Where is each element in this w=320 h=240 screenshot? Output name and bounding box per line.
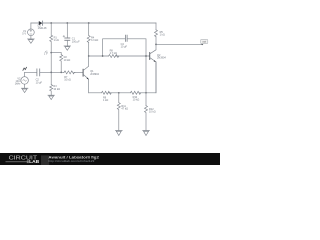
node dot Q1 collector <box>88 55 90 57</box>
transistor Q1 <box>83 56 89 93</box>
node dot emitter chain x118 <box>118 92 120 94</box>
wire divider to R2 <box>51 52 61 54</box>
watermark bar <box>0 153 220 165</box>
resistor R10 <box>130 91 140 94</box>
svg-text:100 µF: 100 µF <box>72 40 80 43</box>
ground below R11 <box>116 131 123 136</box>
svg-text:2N3904: 2N3904 <box>90 73 99 76</box>
resistor R8 <box>109 55 119 58</box>
svg-text:10 kΩ: 10 kΩ <box>133 98 140 101</box>
svg-text:10 µF: 10 µF <box>36 81 43 84</box>
resistor R9 emitter <box>102 91 112 94</box>
resistor R11 to ground <box>117 93 120 131</box>
svg-text:10 kΩ: 10 kΩ <box>53 88 60 91</box>
emitter chain wire <box>89 62 156 93</box>
svg-text:1 V: 1 V <box>44 53 48 56</box>
ground below R12 <box>143 131 150 136</box>
wire output <box>156 43 202 45</box>
node dot emitter chain x146 <box>145 92 147 94</box>
wire R7 to Q1 base <box>74 71 83 73</box>
voltage source V2 <box>21 67 29 88</box>
wire base input <box>25 71 64 73</box>
svg-text:10 µF: 10 µF <box>121 45 128 48</box>
svg-text:1kHz: 1kHz <box>15 83 21 86</box>
node dot rail-R4 <box>88 22 90 24</box>
ground below C1 <box>64 46 71 50</box>
capacitor C2 <box>37 69 40 76</box>
logo underline LAB <box>6 161 29 163</box>
node dot divider <box>50 52 52 54</box>
svg-text:3.3 kΩ: 3.3 kΩ <box>91 39 98 42</box>
node dot rail-C1 <box>66 22 68 24</box>
svg-text:LAB: LAB <box>29 159 39 164</box>
node dot Q2 base <box>145 55 147 57</box>
svg-text:5 V: 5 V <box>22 32 26 35</box>
svg-text:1 kΩ: 1 kΩ <box>103 99 108 102</box>
ground below V1 <box>28 39 35 43</box>
svg-text:1N4148: 1N4148 <box>38 27 47 30</box>
ground below V2 <box>21 88 28 92</box>
resistor R5 collector load Q2 <box>155 23 158 44</box>
resistor R12 to ground <box>145 93 148 131</box>
ground below R3 <box>48 95 55 99</box>
wire Q1 collector to R8 <box>89 55 109 57</box>
svg-text:10 kΩ: 10 kΩ <box>64 79 71 82</box>
svg-text:10 kΩ: 10 kΩ <box>64 59 71 62</box>
node dot feedback tap <box>102 55 104 57</box>
resistor R1 <box>50 23 53 53</box>
feedback right to Q2 base <box>127 39 146 93</box>
transistor Q2 <box>150 44 156 92</box>
svg-text:1 kΩ: 1 kΩ <box>160 34 165 37</box>
node dot base wire x61 <box>60 72 62 74</box>
output flag <box>201 39 208 45</box>
node dot output <box>155 44 157 46</box>
wire R8 to Q2 base node <box>115 55 149 57</box>
svg-text:out: out <box>202 41 206 44</box>
labels <box>15 25 167 114</box>
voltage source V1 <box>28 23 35 39</box>
svg-text:http://circuitlab.com/c/cnhar1: http://circuitlab.com/c/cnhar123 <box>48 159 94 163</box>
capacitor C4 <box>126 35 128 41</box>
node dot rail-R1 <box>50 22 52 24</box>
capacitor C1 <box>63 23 70 46</box>
resistor R3 <box>50 84 53 95</box>
resistor R2 <box>60 53 63 73</box>
svg-text:47 kΩ: 47 kΩ <box>121 108 128 111</box>
resistor R7 series base <box>64 71 75 74</box>
feedback tap left <box>103 39 126 56</box>
svg-text:2N3904: 2N3904 <box>157 56 166 59</box>
resistor R4 collector load Q1 <box>87 23 90 56</box>
diode D1 <box>39 21 43 25</box>
node dot base wire x51 <box>50 72 52 74</box>
wire divider down <box>50 53 52 85</box>
svg-text:10 kΩ: 10 kΩ <box>149 111 156 114</box>
svg-text:1 kΩ: 1 kΩ <box>54 39 59 42</box>
wire top rail <box>31 22 156 24</box>
svg-text:4.7 kΩ: 4.7 kΩ <box>110 52 117 55</box>
